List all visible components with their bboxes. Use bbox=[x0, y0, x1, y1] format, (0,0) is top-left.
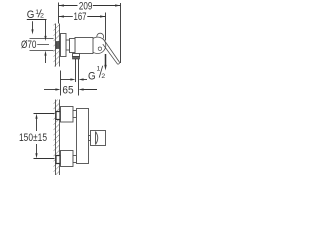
outlet stub light part bbox=[73, 54, 80, 57]
bottom stub bbox=[73, 156, 77, 163]
escutcheon (top view, edge-on) bbox=[61, 34, 67, 57]
ext line 167 right with down arrow bbox=[104, 13, 106, 71]
svg-text:1: 1 bbox=[97, 66, 101, 73]
label G 1/2 top-left bbox=[27, 9, 44, 21]
svg-text:65: 65 bbox=[62, 84, 73, 96]
outlet stub dark nut bbox=[73, 57, 80, 60]
cartridge notch in dome bbox=[98, 47, 101, 50]
union nut in wall (dark) bbox=[56, 42, 60, 49]
bottom escutcheon bbox=[61, 151, 74, 167]
svg-text:167: 167 bbox=[74, 11, 87, 23]
slash of top G 1/2 bbox=[38, 9, 42, 17]
outlet pipe ext line right bbox=[78, 59, 80, 96]
slash of bottom G 1/2 bbox=[99, 66, 103, 78]
dim 65 bbox=[44, 88, 97, 90]
top escutcheon bbox=[61, 107, 74, 123]
top union nut bbox=[56, 112, 60, 120]
lever (diagonal) bbox=[103, 39, 120, 64]
label G 1/2 bottom bbox=[88, 66, 105, 83]
ext line wall face (left of 209/167) bbox=[58, 3, 60, 24]
ext line 209 right bbox=[120, 3, 122, 63]
handle stub bbox=[89, 136, 91, 141]
leader arrow B (down, from underline corner) bbox=[44, 20, 46, 42]
body main section (top view) bbox=[75, 38, 93, 54]
svg-text:G: G bbox=[88, 71, 96, 83]
dim 167 line bbox=[59, 15, 106, 17]
supply pipe line top / Ø70 ext line bbox=[30, 38, 56, 40]
svg-text:Ø70: Ø70 bbox=[21, 39, 37, 51]
handle dome arc bbox=[96, 132, 98, 145]
dim 209 line bbox=[59, 4, 121, 6]
underline of top G 1/2 bbox=[27, 19, 47, 21]
svg-text:150±15: 150±15 bbox=[19, 132, 47, 144]
body (bottom view) bbox=[77, 109, 89, 164]
outlet pipe ext line left bbox=[75, 59, 77, 82]
svg-text:2: 2 bbox=[40, 13, 44, 20]
Ø70 bottom arrow (up) bbox=[44, 51, 46, 64]
top stub bbox=[73, 111, 77, 118]
handle dome (circle, drawn before body so body hides left part) bbox=[89, 37, 105, 53]
body inlet section (top view) bbox=[70, 39, 76, 53]
handle box (end-on) bbox=[91, 131, 106, 146]
handle dome chord line bbox=[95, 132, 97, 145]
wall face ext line (for 65) bbox=[60, 71, 62, 96]
wall section (top view) bbox=[54, 24, 60, 67]
dim 150±15 bbox=[34, 114, 55, 159]
wall section (bottom view) bbox=[54, 100, 60, 176]
connector piece bbox=[66, 40, 70, 50]
leader arrow A (down, short) bbox=[31, 21, 33, 34]
Ø70 centerline leader bbox=[37, 44, 49, 46]
outlet thread annotation line with arrows bbox=[61, 78, 88, 80]
lever knob (seen from above) bbox=[97, 33, 104, 40]
supply pipe line bottom / Ø70 ext line bbox=[30, 50, 56, 52]
svg-text:2: 2 bbox=[101, 73, 105, 80]
bottom union nut bbox=[56, 156, 60, 164]
